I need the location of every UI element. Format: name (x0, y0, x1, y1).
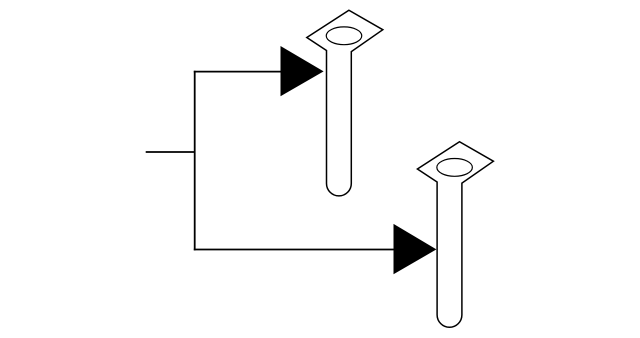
wire W3 (top branch) (194, 71, 282, 73)
wire W2 (vertical trunk) (194, 71, 196, 251)
arrow pointer A1 (to bolt B1) (281, 46, 324, 96)
bolt B1 outline (head plate + shank) (307, 10, 383, 196)
bolt B2 hole (ellipse) (437, 159, 473, 177)
wire W4 (bottom branch) (194, 249, 395, 251)
bolt B1 hole (ellipse) (326, 27, 362, 45)
bolt B2 outline (head plate + shank) (417, 142, 493, 328)
wire W1 (input stub) (146, 151, 195, 153)
arrow pointer A2 (to bolt B2) (394, 224, 437, 274)
